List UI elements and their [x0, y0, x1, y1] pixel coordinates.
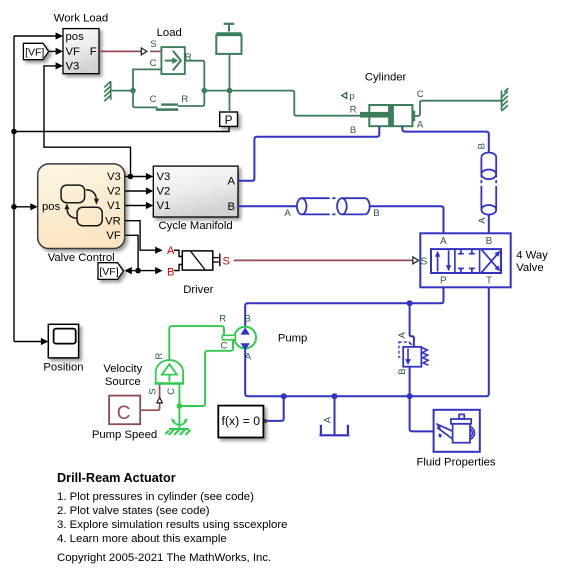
arrowhead into Work Load VF — [56, 48, 63, 55]
block Work Load — [54, 13, 108, 74]
wire node to ground — [178, 406, 180, 429]
arrowhead into Cycle Manifold V1 — [146, 202, 153, 209]
svg-text:Cylinder: Cylinder — [365, 72, 407, 84]
svg-text:Position: Position — [43, 362, 83, 374]
wire Cycle Manifold B to pipe1 A — [238, 205, 297, 207]
svg-text:B: B — [397, 368, 408, 374]
arrowhead into Valve Control pos — [30, 203, 37, 210]
svg-text:[VF]: [VF] — [25, 46, 44, 58]
svg-text:p: p — [349, 91, 354, 102]
junction tank — [332, 393, 338, 399]
arrowhead into Goto tag VF — [124, 267, 131, 274]
wire relief B — [409, 367, 411, 397]
transition arrow 1 — [86, 190, 96, 201]
block Pump Speed — [92, 396, 157, 441]
svg-text:A: A — [440, 236, 447, 247]
svg-text:S: S — [150, 39, 156, 50]
svg-text:Drill-Ream Actuator: Drill-Ream Actuator — [57, 471, 176, 485]
junction node3 — [227, 88, 233, 94]
svg-text:A: A — [322, 416, 333, 423]
chart Valve Control — [38, 164, 125, 264]
svg-text:A: A — [417, 119, 424, 130]
cell2 blocked ports — [458, 249, 475, 273]
force source Load — [150, 27, 192, 74]
ps arrowhead at Velocity Source S — [157, 397, 163, 403]
svg-text:C: C — [117, 403, 131, 424]
wire pipe2 A to valve B — [488, 215, 490, 234]
svg-text:P: P — [225, 113, 233, 127]
arrowhead into Work Load pos — [56, 32, 63, 39]
svg-text:B: B — [167, 266, 174, 278]
wall ground left stub — [111, 90, 133, 92]
svg-text:3. Explore simulation results: 3. Explore simulation results using ssce… — [57, 519, 287, 531]
wire pipe1 B to valve A — [370, 206, 444, 233]
oil can icon — [437, 414, 475, 442]
state box 1 — [61, 185, 85, 203]
wire V3 branch to Work Load V3 — [44, 66, 131, 177]
wire Valve Control V2 to Cycle Manifold — [125, 190, 147, 192]
wire tank stub — [334, 396, 336, 435]
velocity source — [103, 353, 184, 395]
svg-text:P: P — [440, 276, 447, 287]
cylinder block — [342, 72, 424, 136]
transition arrow 2 — [67, 208, 77, 219]
wire Driver B stub — [174, 265, 183, 271]
svg-text:A: A — [284, 208, 291, 219]
block Driver — [167, 245, 230, 296]
svg-text:T: T — [486, 276, 492, 287]
svg-text:VR: VR — [105, 215, 121, 227]
svg-text:Driver: Driver — [183, 284, 213, 296]
svg-text:B: B — [373, 208, 379, 219]
junction solver — [281, 393, 287, 399]
ps arrowhead at valve S — [413, 257, 419, 264]
junction trunk/Valve Control pos — [11, 204, 17, 210]
svg-text:f(x) = 0: f(x) = 0 — [221, 414, 260, 428]
svg-text:2. Plot valve states (see code: 2. Plot valve states (see code) — [57, 505, 210, 517]
wire pump A to tank line to valve T — [245, 287, 489, 396]
svg-text:B: B — [477, 143, 488, 149]
svg-text:[VF]: [VF] — [99, 266, 118, 278]
junction node2 — [202, 88, 208, 94]
svg-text:V2: V2 — [107, 186, 121, 198]
svg-text:V1: V1 — [107, 200, 121, 212]
junction relief A — [407, 300, 413, 306]
valve 4-way — [420, 233, 548, 287]
wire line to Fluid Properties — [410, 396, 434, 431]
arrowhead into Driver B — [155, 267, 162, 274]
block Cycle Manifold — [153, 166, 238, 232]
svg-text:V3: V3 — [66, 61, 80, 73]
wire damper R to node2 — [178, 91, 204, 106]
svg-text:Copyright 2005-2021 The MathWo: Copyright 2005-2021 The MathWorks, Inc. — [57, 552, 271, 564]
svg-text:Valve: Valve — [516, 262, 543, 274]
scope Position — [43, 324, 83, 373]
svg-text:R: R — [185, 52, 192, 63]
wire cylinder A to pipe2 B — [402, 126, 488, 153]
goto tag VF2 — [98, 263, 123, 280]
svg-text:R: R — [154, 353, 165, 360]
svg-text:C: C — [417, 89, 424, 100]
svg-text:Load: Load — [157, 27, 182, 39]
arrowhead into Driver A — [155, 247, 162, 254]
wire Work Load F to Load S — [99, 50, 141, 52]
wire From-tag VF to Work Load VF — [49, 50, 57, 52]
wire trunk position-signal vertical — [13, 36, 15, 342]
svg-text:S: S — [148, 388, 159, 394]
wire Valve Control VR to Driver A — [125, 221, 156, 251]
wire VF junction to Driver B — [138, 270, 156, 272]
svg-text:R: R — [219, 313, 226, 324]
svg-text:VF: VF — [106, 230, 121, 242]
ground rotational reference — [165, 418, 190, 435]
wire cylinder C to wall right — [415, 101, 501, 116]
wire pump B to valve P — [245, 287, 443, 327]
svg-text:V1: V1 — [157, 200, 171, 212]
wire Load R to node2 — [185, 61, 205, 91]
state box 2 — [77, 207, 102, 225]
svg-text:A: A — [227, 176, 235, 188]
svg-text:C: C — [150, 58, 157, 69]
svg-text:S: S — [421, 256, 428, 267]
junction relief B / fluid properties — [407, 393, 413, 399]
svg-text:VF: VF — [66, 46, 81, 58]
solver block f(x)=0 — [218, 406, 266, 438]
svg-text:A: A — [245, 352, 252, 363]
cell3 crossed arrows — [482, 250, 501, 273]
svg-text:V3: V3 — [107, 171, 121, 183]
junction V3 branch — [128, 174, 134, 180]
svg-text:4 Way: 4 Way — [516, 250, 548, 262]
svg-text:C: C — [220, 341, 227, 352]
junction trunk/P-sensor — [11, 129, 17, 135]
wire Valve Control V3 to Cycle Manifold — [125, 176, 147, 178]
svg-text:C: C — [166, 388, 177, 395]
svg-text:pos: pos — [66, 31, 85, 43]
wire trunk to Valve Control pos — [14, 206, 31, 208]
wire Valve Control V1 to Cycle Manifold — [125, 205, 147, 207]
mass block — [216, 24, 241, 54]
svg-text:A: A — [397, 331, 408, 338]
tank — [319, 425, 349, 436]
wire solver to line — [267, 396, 284, 421]
wire velocity source R to pump R — [169, 326, 224, 361]
svg-text:B: B — [350, 125, 356, 136]
damper C-R — [150, 94, 189, 111]
svg-text:Fluid Properties: Fluid Properties — [416, 456, 495, 468]
svg-text:Velocity: Velocity — [103, 363, 142, 375]
svg-text:pos: pos — [42, 201, 61, 213]
wire VF junction to Goto tag — [131, 270, 139, 272]
wall ground left — [104, 81, 110, 101]
ps arrowhead at Load S — [141, 48, 147, 55]
wire from P sensor to trunk — [14, 127, 229, 132]
pump — [219, 313, 307, 362]
svg-text:S: S — [223, 255, 230, 267]
arrowhead into Work Load V3 — [56, 62, 63, 69]
svg-text:F: F — [90, 46, 97, 58]
svg-text:V3: V3 — [157, 171, 171, 183]
wire trunk to Position scope — [14, 341, 42, 343]
relief valve — [397, 331, 429, 374]
arrowhead into Cycle Manifold V2 — [146, 187, 153, 194]
arrowhead into Cycle Manifold V3 — [146, 173, 153, 180]
svg-text:R: R — [181, 94, 188, 105]
from tag VF1 — [23, 43, 48, 59]
arrowhead into Position scope — [41, 338, 48, 345]
svg-text:Work Load: Work Load — [54, 13, 108, 25]
junction rotational node — [177, 403, 183, 409]
wire Driver S to 4-way valve S — [234, 259, 413, 261]
measurement marker p — [342, 93, 347, 99]
svg-text:R: R — [350, 105, 357, 116]
pipe1 horizontal — [297, 198, 370, 214]
svg-text:Pump Speed: Pump Speed — [92, 429, 157, 441]
wire velocity source C to node — [178, 384, 180, 407]
pipe2 vertical — [481, 152, 496, 214]
svg-text:B: B — [227, 201, 235, 213]
junction node1 — [130, 88, 136, 94]
svg-text:A: A — [477, 217, 488, 224]
svg-text:V2: V2 — [157, 186, 171, 198]
wire node1 to damper C — [133, 91, 157, 110]
wire node to pump C — [179, 340, 233, 406]
sensor block P — [220, 112, 238, 127]
wire node1 to Load C — [133, 69, 161, 90]
svg-text:B: B — [245, 313, 251, 324]
wire Cycle Manifold A to cylinder B — [238, 126, 379, 181]
svg-text:Pump: Pump — [278, 332, 308, 344]
svg-text:Cycle Manifold: Cycle Manifold — [159, 220, 233, 232]
wire relief A — [410, 303, 414, 347]
wire mass stub — [229, 54, 231, 91]
wire Pump Speed to Velocity Source S — [140, 403, 159, 410]
svg-text:C: C — [150, 94, 157, 105]
junction VF branch — [135, 268, 141, 274]
wire Driver A stub — [174, 250, 183, 256]
wire to Work Load pos input — [14, 35, 57, 37]
wire Valve Control VF down — [125, 235, 138, 270]
svg-text:4. Learn more about this examp: 4. Learn more about this example — [57, 533, 227, 545]
wire node3 to P sensor — [229, 91, 231, 112]
svg-text:A: A — [167, 245, 175, 257]
wall ground right — [502, 88, 509, 111]
cell1 arrows — [435, 251, 451, 272]
svg-text:1. Plot pressures in cylinder: 1. Plot pressures in cylinder (see code) — [57, 491, 254, 503]
svg-text:Source: Source — [105, 376, 141, 388]
block Fluid Properties — [416, 410, 495, 469]
svg-text:B: B — [486, 236, 493, 247]
wire main mechanical line to cylinder R — [204, 91, 363, 116]
